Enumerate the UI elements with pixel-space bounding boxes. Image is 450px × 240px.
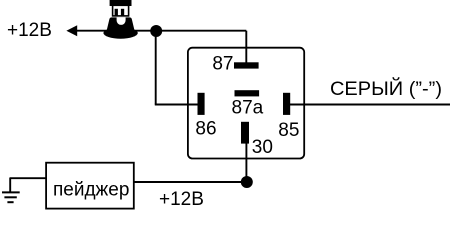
wire bottom from pager to junction [134, 181, 247, 183]
relay K1 body [188, 48, 304, 159]
pin 87a contact bar [235, 90, 260, 96]
wire to pin 86 [155, 104, 200, 106]
svg-text:30: 30 [252, 137, 273, 158]
fuse F1 holder [103, 0, 137, 39]
junction dot bottom [241, 176, 253, 188]
pin 85 contact bar [283, 93, 290, 115]
junction dot top [150, 25, 162, 37]
pin 87 contact bar [234, 62, 259, 68]
wire top horizontal +12V feed [72, 30, 246, 32]
wire from junction down [155, 31, 157, 105]
svg-text:87a: 87a [232, 98, 264, 119]
svg-text:87: 87 [212, 54, 233, 75]
pager box [46, 163, 134, 209]
svg-text:СЕРЫЙ (”-”): СЕРЫЙ (”-”) [330, 78, 442, 100]
pin 30 contact bar [241, 122, 249, 144]
wire from pin 30 down [245, 142, 247, 182]
svg-text:85: 85 [278, 120, 299, 141]
svg-text:пейджер: пейджер [53, 180, 129, 201]
wire from pin 85 to gray output [288, 104, 450, 106]
arrowhead to +12V [66, 25, 77, 36]
svg-text:86: 86 [195, 118, 216, 139]
svg-text:+12В: +12В [7, 20, 52, 41]
wire down to pin 87 [245, 31, 247, 64]
pin 86 contact bar [198, 93, 205, 115]
svg-text:+12В: +12В [159, 189, 204, 210]
ground symbol [2, 178, 20, 202]
wire ground to pager [10, 177, 47, 179]
